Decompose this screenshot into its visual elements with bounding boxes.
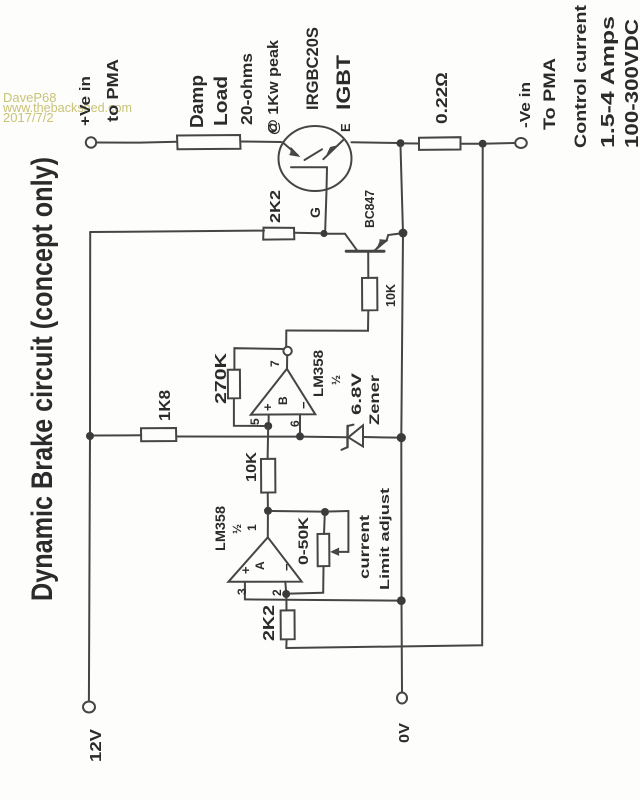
resistor 2K2 gate (263, 228, 294, 240)
wire pin5 to 10K (267, 426, 270, 459)
watermark DaveP68 (2, 90, 132, 125)
svg-text:½: ½ (230, 524, 244, 534)
svg-text:10K: 10K (243, 452, 260, 482)
svg-text:6: 6 (288, 420, 302, 427)
wire (461, 143, 483, 145)
svg-text:IGBT: IGBT (334, 55, 355, 110)
wire pot bottom to pin2 (290, 592, 324, 595)
node junction (479, 140, 487, 148)
wire (352, 141, 401, 144)
svg-text:LM358: LM358 (212, 506, 228, 551)
svg-text:+: + (238, 566, 253, 574)
svg-text:Load: Load (211, 76, 231, 126)
svg-text:½: ½ (329, 375, 343, 385)
wire main mid rail (176, 436, 347, 439)
svg-text:5: 5 (248, 418, 262, 425)
svg-text:2K2: 2K2 (261, 605, 278, 641)
transistor IGBT Q1 (279, 126, 352, 191)
wire 12V rail (89, 232, 90, 702)
svg-text:current: current (356, 515, 372, 579)
wire gate (325, 191, 326, 231)
svg-text:+Ve in: +Ve in (77, 76, 94, 126)
svg-text:−: − (296, 401, 311, 409)
node junction pin2 (282, 590, 290, 598)
svg-text:0.22Ω: 0.22Ω (434, 72, 451, 124)
resistor Damp Load (177, 135, 241, 149)
svg-text:LM358: LM358 (310, 350, 326, 397)
node junction opamp A out (264, 507, 272, 515)
svg-text:E: E (338, 123, 353, 132)
svg-text:-Ve in: -Ve in (517, 82, 534, 128)
resistor 2K2 feedback (281, 598, 295, 648)
node junction zener (397, 433, 406, 442)
wire (487, 142, 515, 145)
terminal 0V (397, 693, 407, 704)
svg-text:10K: 10K (383, 283, 398, 307)
svg-text:Damp: Damp (187, 75, 207, 128)
transistor BC847 Q2 (345, 234, 399, 278)
svg-text:1: 1 (245, 524, 259, 531)
svg-text:3: 3 (235, 588, 249, 595)
svg-text:12V: 12V (88, 729, 105, 762)
op-amp U1B LM358 (251, 331, 315, 433)
svg-text:IRGBC20S: IRGBC20S (303, 27, 322, 110)
svg-text:6.8V: 6.8V (348, 372, 364, 415)
wire (234, 398, 264, 426)
svg-text:0-50K: 0-50K (295, 517, 311, 565)
svg-text:0V: 0V (396, 723, 413, 743)
svg-text:7: 7 (268, 360, 282, 367)
potentiometer 0-50K (318, 511, 349, 593)
svg-text:−: − (279, 563, 294, 571)
svg-text:2: 2 (270, 589, 284, 596)
resistor 270K (228, 370, 240, 399)
svg-text:20-ohms: 20-ohms (239, 53, 256, 125)
node gate junction (320, 230, 327, 237)
node junction (399, 229, 408, 238)
wire pin3 line (245, 599, 398, 600)
node junction pin5 (264, 422, 272, 430)
wire sense rail vertical (286, 147, 482, 648)
wire (272, 510, 321, 513)
svg-text:A: A (253, 561, 267, 570)
resistor 10K interstage (261, 459, 275, 493)
op-amp U1A LM358 (228, 514, 301, 599)
svg-text:270K: 270K (213, 352, 230, 404)
svg-text:Dynamic Brake circuit (concept: Dynamic Brake circuit (concept only) (26, 157, 59, 601)
svg-text:BC847: BC847 (362, 190, 377, 228)
terminal -Ve (515, 138, 527, 148)
svg-text:1.5-4 Amps: 1.5-4 Amps (598, 16, 618, 148)
wire (97, 141, 178, 144)
wire (267, 493, 269, 507)
svg-text:G: G (307, 207, 323, 218)
terminal 12V (83, 702, 95, 713)
wire (328, 233, 346, 235)
svg-text:1K8: 1K8 (157, 390, 174, 421)
svg-text:+: + (260, 403, 275, 411)
svg-text:To PMA: To PMA (540, 58, 559, 130)
wire 0V rail vertical (401, 146, 404, 693)
wire feedback (234, 348, 283, 370)
svg-text:100-300VDC: 100-300VDC (622, 19, 640, 148)
terminal +Ve (86, 137, 96, 147)
svg-text:to PMA: to PMA (105, 58, 122, 122)
svg-text:C: C (265, 123, 280, 133)
svg-text:2K2: 2K2 (267, 190, 284, 223)
node junction (86, 432, 94, 440)
wire (241, 141, 282, 144)
resistor 0.22 ohm (419, 137, 461, 150)
node junction pin6 (296, 432, 304, 440)
wire (90, 231, 264, 232)
svg-text:@ 1Kw peak: @ 1Kw peak (265, 39, 282, 135)
svg-text:2017/7/2: 2017/7/2 (3, 110, 54, 125)
wire (94, 434, 141, 436)
diode zener 6.8V (342, 425, 398, 450)
wire (286, 310, 368, 330)
node junction 0V (397, 596, 406, 605)
svg-text:B: B (276, 396, 290, 405)
wire (405, 142, 420, 144)
svg-text:Zener: Zener (366, 374, 382, 425)
svg-text:Limit adjust: Limit adjust (377, 487, 392, 590)
svg-text:Control current: Control current (571, 5, 590, 148)
node junction pot top (321, 508, 329, 516)
node junction (397, 139, 405, 147)
resistor 1K8 (141, 428, 176, 441)
resistor 10K collector (362, 278, 377, 311)
wire (294, 232, 320, 235)
